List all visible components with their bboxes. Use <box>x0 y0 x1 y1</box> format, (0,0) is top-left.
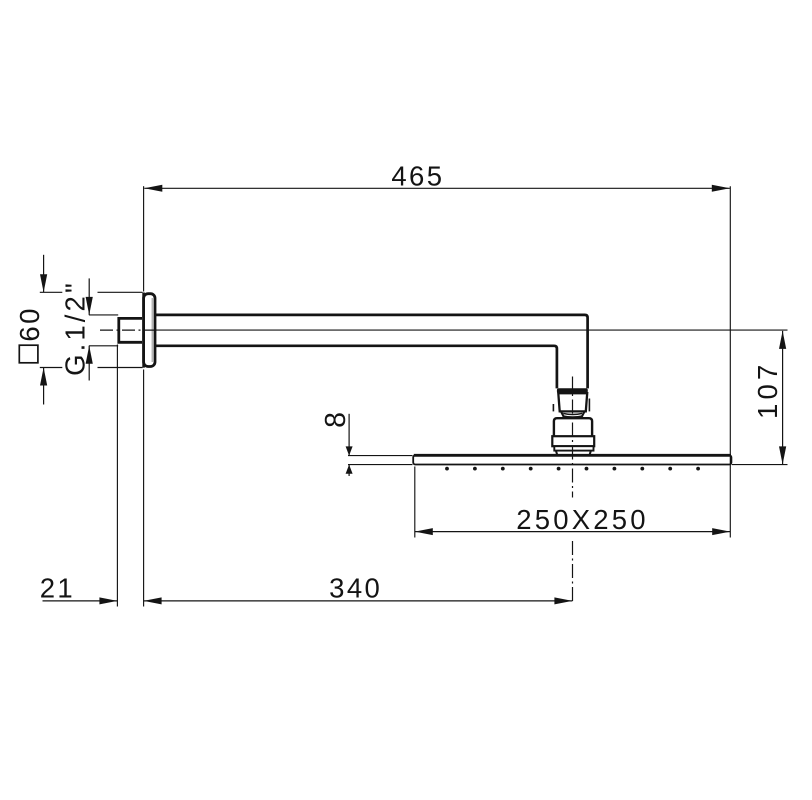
dimension 8: lower shaft <box>348 465 350 476</box>
dimension 250X250: left extension <box>414 467 416 538</box>
svg-text:21: 21 <box>40 572 75 603</box>
joint base <box>556 451 591 456</box>
vertical centerline lower segment (dash-dot) <box>572 541 574 605</box>
dimension 107: bottom extension <box>732 464 788 466</box>
joint band 2 <box>554 446 593 450</box>
dimension 340: left extension (below flange) <box>143 370 145 607</box>
svg-text:107: 107 <box>752 361 783 419</box>
plate top face (thick) <box>414 454 731 457</box>
dimension 465: right arrow <box>712 185 730 192</box>
dimension 250X250: right arrow <box>712 528 730 535</box>
flange left edge <box>142 293 145 368</box>
nozzle dots <box>445 467 700 471</box>
vertical centerline upper segment (dash-dot) <box>572 377 574 498</box>
shower arm bottom+inner edge <box>156 346 557 389</box>
svg-text:60: 60 <box>14 306 45 341</box>
dimension 8: bottom extension <box>348 464 413 466</box>
flange inner edge line <box>151 298 153 362</box>
svg-text:340: 340 <box>329 572 382 603</box>
cone arc 1 <box>563 413 582 414</box>
dimension square60: bottom extension segments <box>40 367 63 369</box>
dimension 465: left arrow <box>144 185 162 192</box>
dimension 250X250: line <box>415 531 730 533</box>
dimension 465: line <box>144 187 730 189</box>
svg-text:250X250: 250X250 <box>516 504 649 535</box>
dimension G.1/2: bottom extension <box>89 345 118 347</box>
dimension G.1/2: top extension <box>89 314 118 316</box>
dimension square60: square symbol <box>19 345 38 363</box>
dimension 8: upper shaft <box>348 414 350 456</box>
107 extension line along arm centerline <box>157 329 788 331</box>
dimension 21: arrow <box>99 597 117 604</box>
dimension 340: right arrow <box>554 597 572 604</box>
dimension G.1/2: upper arrow <box>86 297 93 315</box>
dimension 340: left arrow <box>144 597 162 604</box>
swivel nut <box>558 393 587 411</box>
arm collar <box>557 388 588 393</box>
dimension 8: upper arrow <box>346 446 353 455</box>
dimension square60: top extension segments <box>40 291 63 293</box>
dimension 250X250: left arrow <box>415 528 433 535</box>
dimension G.1/2: lower arrow <box>86 346 93 364</box>
dimension 340: line <box>144 600 573 602</box>
svg-text:8: 8 <box>320 412 352 428</box>
dimension 107: top arrow <box>779 331 786 349</box>
dimension 8: top extension <box>348 455 413 457</box>
dimension square60: lower arrow <box>40 368 47 386</box>
joint wide band <box>552 436 594 446</box>
dimension 465 / 250X250 shared right extension line <box>729 186 731 537</box>
dimension 8: lower arrow <box>346 465 353 474</box>
dimension 21: right extension (below nipple) <box>116 345 118 607</box>
dimension square60: lower shaft <box>43 368 45 405</box>
dimension G.1/2: upper shaft <box>88 278 90 315</box>
svg-text:465: 465 <box>391 160 444 191</box>
nut hex tick right <box>588 399 590 412</box>
G1/2 nipple <box>119 318 142 342</box>
ball joint housing <box>554 418 592 436</box>
wall flange <box>144 294 155 367</box>
nipple centerline (dash-dot) <box>100 329 157 331</box>
dimension 465: left extension line <box>143 186 145 291</box>
dimension 107: line <box>782 331 784 465</box>
nut hex tick left <box>552 404 554 411</box>
dimension G.1/2: lower shaft <box>88 346 90 381</box>
dimension square60: upper shaft <box>43 255 45 292</box>
shower arm top+outer edge <box>156 315 588 389</box>
cone neck <box>561 411 585 418</box>
svg-text:G.1/2": G.1/2" <box>60 280 91 376</box>
dimension 21: leader line <box>43 600 118 602</box>
cone arc 2 <box>562 416 583 417</box>
dimension square60: upper arrow <box>40 274 47 292</box>
shower head plate <box>413 455 731 464</box>
dimension 107: bottom arrow <box>779 446 786 464</box>
